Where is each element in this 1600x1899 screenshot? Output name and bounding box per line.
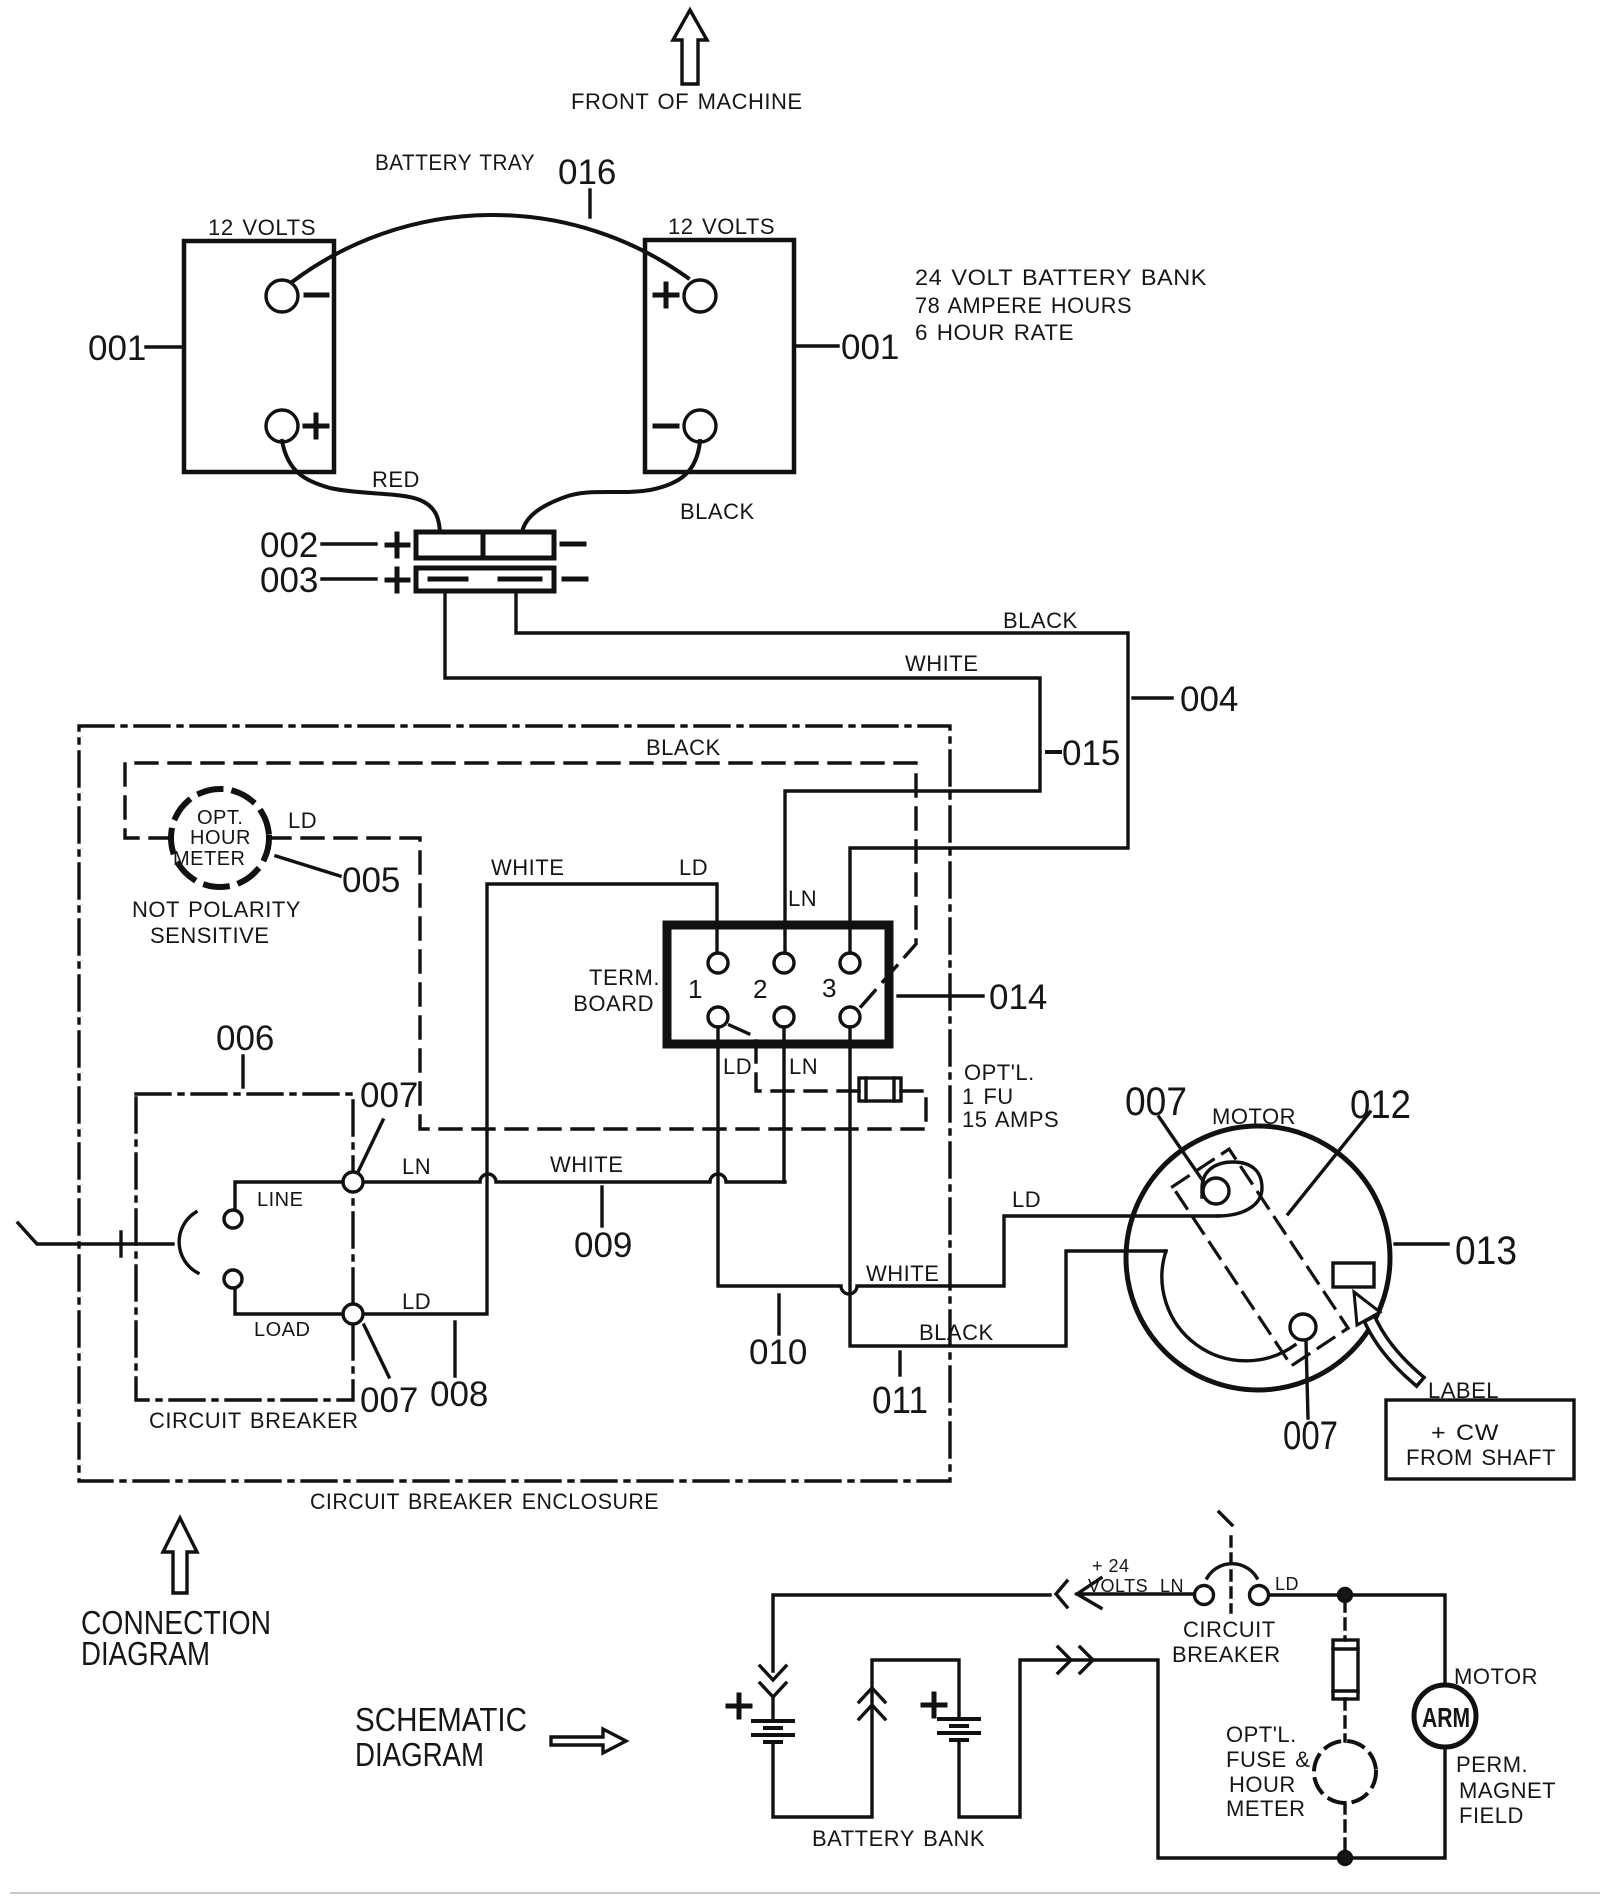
svg-text:SENSITIVE: SENSITIVE xyxy=(150,923,269,948)
svg-text:BLACK: BLACK xyxy=(646,735,721,760)
svg-text:LD: LD xyxy=(402,1289,431,1314)
svg-text:MOTOR: MOTOR xyxy=(1454,1664,1538,1689)
svg-text:009: 009 xyxy=(574,1226,632,1265)
svg-text:+ 24: + 24 xyxy=(1092,1556,1130,1576)
svg-text:LD: LD xyxy=(1275,1574,1299,1594)
svg-text:OPT'L.: OPT'L. xyxy=(1226,1722,1297,1747)
svg-text:003: 003 xyxy=(260,561,318,600)
svg-text:BATTERY TRAY: BATTERY TRAY xyxy=(375,150,535,175)
svg-text:015: 015 xyxy=(1062,734,1120,773)
svg-text:004: 004 xyxy=(1180,680,1238,719)
svg-text:FIELD: FIELD xyxy=(1459,1803,1524,1828)
svg-text:LD: LD xyxy=(288,808,317,833)
svg-text:LOAD: LOAD xyxy=(254,1319,310,1341)
svg-text:78 AMPERE HOURS: 78 AMPERE HOURS xyxy=(915,293,1132,318)
svg-text:PERM.: PERM. xyxy=(1456,1752,1528,1777)
svg-text:12 VOLTS: 12 VOLTS xyxy=(208,215,316,240)
svg-text:FUSE &: FUSE & xyxy=(1226,1747,1310,1772)
svg-text:014: 014 xyxy=(989,978,1047,1017)
svg-text:WHITE: WHITE xyxy=(491,855,564,880)
svg-text:TERM.: TERM. xyxy=(589,965,660,990)
svg-text:007: 007 xyxy=(1125,1080,1187,1124)
svg-text:ARM: ARM xyxy=(1422,1702,1470,1733)
svg-text:001: 001 xyxy=(841,328,899,367)
svg-text:013: 013 xyxy=(1455,1229,1517,1273)
svg-text:001: 001 xyxy=(88,329,146,368)
svg-text:6 HOUR RATE: 6 HOUR RATE xyxy=(915,320,1074,345)
svg-text:3: 3 xyxy=(822,973,836,1003)
svg-text:012: 012 xyxy=(1350,1083,1411,1127)
svg-text:METER: METER xyxy=(173,848,246,870)
svg-text:LABEL: LABEL xyxy=(1428,1378,1499,1403)
svg-text:24 VOLT BATTERY BANK: 24 VOLT BATTERY BANK xyxy=(915,265,1207,290)
svg-text:BREAKER: BREAKER xyxy=(1172,1642,1281,1667)
svg-text:006: 006 xyxy=(216,1019,274,1058)
svg-text:SCHEMATIC: SCHEMATIC xyxy=(355,1701,527,1738)
svg-text:HOUR: HOUR xyxy=(1229,1772,1296,1797)
svg-text:002: 002 xyxy=(260,526,318,565)
svg-text:NOT POLARITY: NOT POLARITY xyxy=(132,897,301,922)
svg-text:LD: LD xyxy=(679,855,708,880)
svg-text:OPT.: OPT. xyxy=(197,807,243,829)
svg-text:008: 008 xyxy=(430,1375,488,1414)
svg-text:CIRCUIT BREAKER ENCLOSURE: CIRCUIT BREAKER ENCLOSURE xyxy=(310,1489,659,1514)
svg-text:15 AMPS: 15 AMPS xyxy=(962,1107,1059,1132)
svg-text:CIRCUIT: CIRCUIT xyxy=(1183,1617,1276,1642)
svg-text:BLACK: BLACK xyxy=(919,1320,994,1345)
svg-text:OPT'L.: OPT'L. xyxy=(964,1060,1035,1085)
svg-text:011: 011 xyxy=(872,1380,928,1422)
svg-text:005: 005 xyxy=(342,861,400,900)
svg-text:BATTERY BANK: BATTERY BANK xyxy=(812,1826,985,1851)
svg-text:010: 010 xyxy=(749,1333,807,1372)
svg-text:FRONT OF MACHINE: FRONT OF MACHINE xyxy=(571,89,803,114)
svg-text:VOLTS: VOLTS xyxy=(1088,1576,1148,1596)
svg-text:MAGNET: MAGNET xyxy=(1459,1778,1556,1803)
svg-text:DIAGRAM: DIAGRAM xyxy=(81,1635,210,1672)
svg-text:LD: LD xyxy=(723,1054,752,1079)
svg-text:007: 007 xyxy=(360,1381,418,1420)
svg-text:LN: LN xyxy=(788,886,817,911)
svg-text:METER: METER xyxy=(1226,1796,1306,1821)
svg-text:BOARD: BOARD xyxy=(573,991,654,1016)
svg-text:016: 016 xyxy=(558,153,616,192)
svg-text:CIRCUIT BREAKER: CIRCUIT BREAKER xyxy=(149,1408,359,1433)
svg-text:FROM SHAFT: FROM SHAFT xyxy=(1406,1445,1556,1470)
svg-text:BLACK: BLACK xyxy=(680,499,755,524)
svg-text:LD: LD xyxy=(1012,1187,1041,1212)
svg-text:MOTOR: MOTOR xyxy=(1212,1104,1296,1129)
svg-text:+ CW: + CW xyxy=(1431,1420,1499,1445)
svg-text:WHITE: WHITE xyxy=(550,1152,623,1177)
svg-text:LINE: LINE xyxy=(257,1189,303,1211)
svg-text:007: 007 xyxy=(1283,1414,1338,1458)
svg-text:HOUR: HOUR xyxy=(190,827,251,849)
svg-text:WHITE: WHITE xyxy=(905,651,978,676)
svg-text:BLACK: BLACK xyxy=(1003,608,1078,633)
svg-text:WHITE: WHITE xyxy=(866,1261,939,1286)
svg-text:12 VOLTS: 12 VOLTS xyxy=(668,214,775,239)
svg-text:RED: RED xyxy=(372,467,420,492)
svg-text:2: 2 xyxy=(753,974,767,1004)
svg-text:DIAGRAM: DIAGRAM xyxy=(355,1736,484,1773)
svg-text:007: 007 xyxy=(360,1076,418,1115)
svg-text:LN: LN xyxy=(402,1154,431,1179)
svg-text:1: 1 xyxy=(688,974,702,1004)
svg-text:LN: LN xyxy=(789,1054,818,1079)
svg-text:1 FU: 1 FU xyxy=(962,1084,1014,1109)
svg-text:LN: LN xyxy=(1160,1576,1184,1596)
